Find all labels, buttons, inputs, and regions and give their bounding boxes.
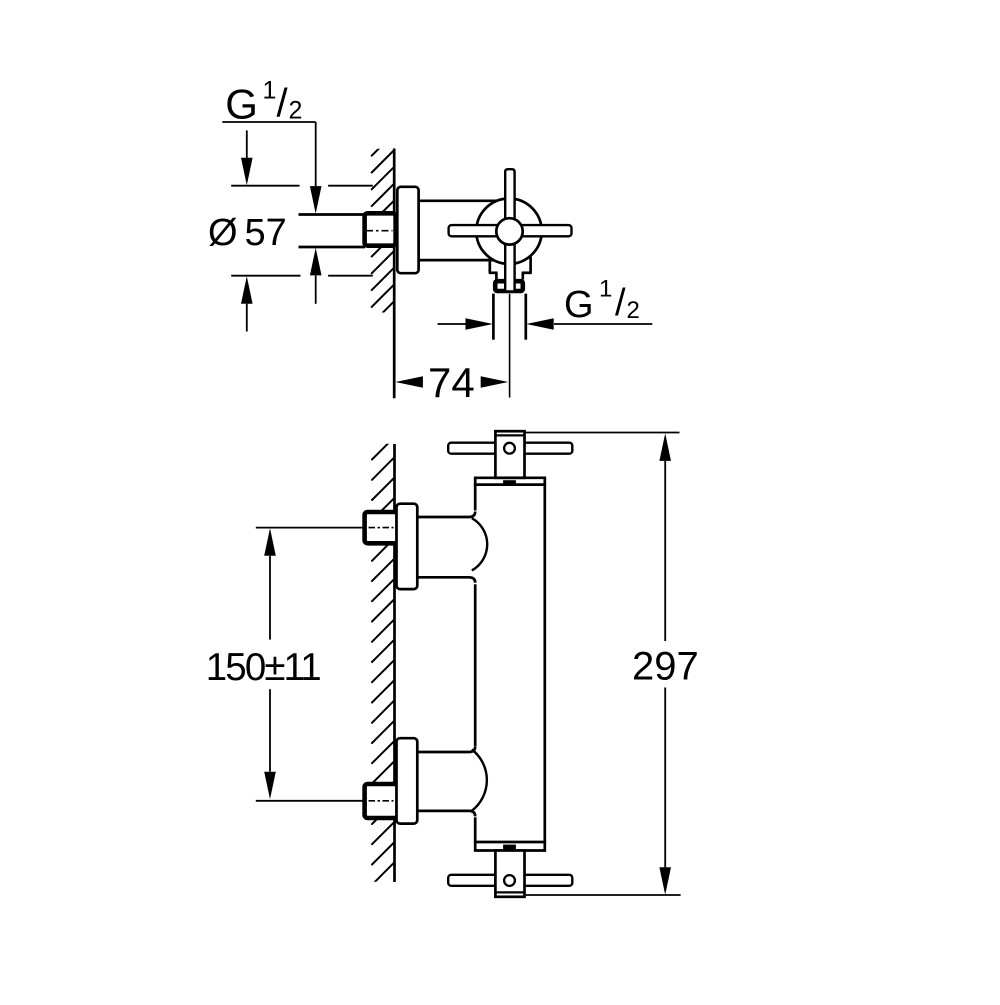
- label Ø57: [208, 212, 287, 254]
- svg-text:/: /: [277, 82, 289, 126]
- lower inlet centerline: [256, 800, 394, 802]
- 150±11 dimension line: [264, 528, 276, 799]
- wall face line (front view): [393, 444, 396, 882]
- svg-text:2: 2: [289, 97, 303, 125]
- Ø57 lower arrow: [241, 276, 253, 331]
- 297 extension line top: [524, 432, 680, 434]
- body index mark top: [503, 480, 516, 484]
- label G1/2 top-left: [225, 77, 302, 128]
- upper inlet centerline: [256, 527, 394, 529]
- escutcheon flange (top view): [397, 187, 418, 273]
- handle stem (top view): [505, 169, 514, 292]
- inlet thread pipe G1/2 (top view): [299, 215, 366, 248]
- top handle hub cap line: [495, 434, 524, 436]
- svg-text:150±11: 150±11: [206, 646, 320, 689]
- svg-text:Ø: Ø: [208, 212, 238, 254]
- svg-text:297: 297: [632, 644, 699, 688]
- handle hub circle (top view): [496, 218, 522, 244]
- nut centerline (top view): [366, 230, 393, 232]
- valve cap circle (top view): [476, 199, 541, 264]
- svg-text:1: 1: [599, 276, 612, 303]
- 74 dimension arrows: [395, 376, 508, 388]
- top handle hub (front view): [495, 431, 524, 478]
- mixer body (front view): [474, 478, 546, 851]
- lower escutcheon (front view): [397, 738, 418, 823]
- outlet union nut (top view): [495, 281, 523, 291]
- union nut (top view): [365, 213, 396, 245]
- bottom handle hub (front view): [495, 851, 524, 897]
- upper S-union tube: [417, 512, 487, 583]
- svg-text:1: 1: [263, 77, 277, 105]
- svg-text:/: /: [615, 282, 626, 324]
- Ø57 extension line top: [231, 185, 373, 187]
- upper union nut (front view): [365, 512, 398, 543]
- svg-text:2: 2: [627, 297, 640, 324]
- wall face line (top view): [393, 149, 396, 399]
- leader line G1/2 top-left: [222, 122, 315, 187]
- 297 dimension line: [659, 433, 671, 894]
- bottom handle bar (front view): [448, 875, 572, 886]
- upper escutcheon (front view): [397, 504, 418, 589]
- lower union nut (front view): [365, 784, 398, 818]
- arrow to pipe bottom edge: [310, 248, 322, 304]
- top handle bar (front view): [448, 443, 572, 454]
- top handle screw: [504, 443, 515, 454]
- svg-text:G: G: [225, 81, 258, 128]
- outlet step shoulder (top view): [489, 257, 532, 280]
- svg-text:74: 74: [428, 359, 475, 406]
- bottom handle hub cap line: [495, 891, 524, 893]
- bottom handle screw: [504, 875, 515, 886]
- outlet nut bottom edge across stem: [503, 290, 517, 293]
- arrow to pipe top edge: [310, 186, 322, 214]
- outlet pipe G1/2 (top view): [493, 294, 525, 340]
- lower S-union tube: [417, 747, 487, 817]
- Ø57 upper arrow: [241, 130, 253, 185]
- 297 extension line bottom: [526, 894, 681, 896]
- svg-text:57: 57: [245, 212, 287, 254]
- svg-text:G: G: [564, 284, 594, 326]
- handle bar (top view): [449, 225, 572, 236]
- G1/2 outlet dimension line: [438, 318, 653, 330]
- Ø57 extension line bottom: [231, 275, 373, 277]
- body index mark bottom: [503, 845, 516, 850]
- label G1/2 outlet: [564, 276, 640, 327]
- valve body tube (top view): [418, 201, 500, 260]
- outlet centerline (top view): [509, 294, 511, 398]
